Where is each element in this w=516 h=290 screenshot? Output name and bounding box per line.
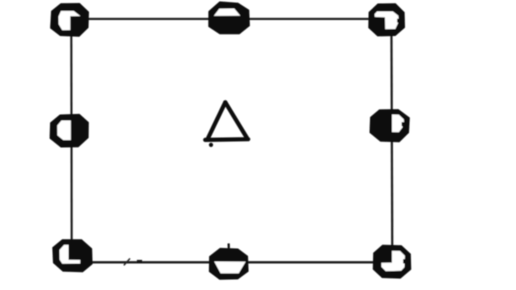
- wire right edge: [390, 19, 393, 262]
- wire top edge: [70, 18, 392, 20]
- node TR (top-right corner ring, black lower-left quadrant, right notch): [368, 3, 405, 36]
- wire bottom edge: [73, 261, 392, 263]
- triangle (center symbol): [205, 102, 248, 140]
- triangle apex blob: [223, 101, 228, 106]
- node ML (middle-left disc, white left half-moon): [50, 114, 89, 148]
- triangle corner blob: [209, 143, 213, 147]
- stray tick on bottom wire: [124, 259, 129, 265]
- node MR (middle-right disc, white right half-moon, small notch): [370, 109, 410, 142]
- stray blob on bottom wire: [137, 260, 142, 263]
- node BR (bottom-right corner ring, black upper-left quadrant, right notch): [373, 245, 411, 279]
- node BL (bottom-left corner ring, white L-shaped interior): [52, 239, 92, 272]
- node BM (bottom-middle disc, white lower trapezoid, top stub): [209, 243, 249, 279]
- node TL (top-left corner ring, black lower-right quadrant): [50, 3, 89, 37]
- wire left edge: [70, 19, 72, 262]
- node TM (top-middle disc, white trapezoid slit): [208, 1, 250, 34]
